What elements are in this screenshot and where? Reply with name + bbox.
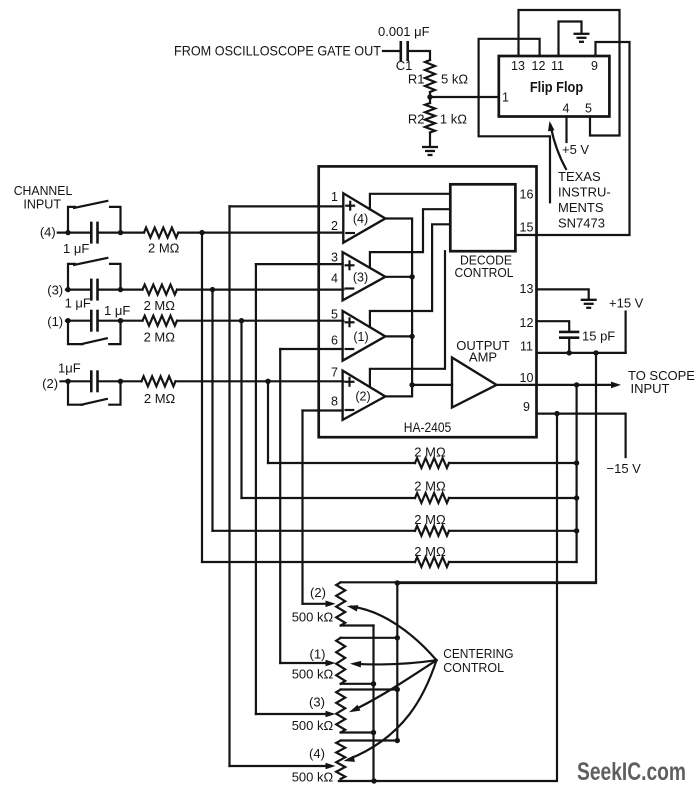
svg-text:5: 5: [585, 102, 592, 116]
svg-text:Flip Flop: Flip Flop: [530, 80, 583, 96]
svg-text:2: 2: [331, 219, 338, 233]
svg-text:2 MΩ: 2 MΩ: [414, 479, 446, 494]
svg-text:2 MΩ: 2 MΩ: [414, 544, 446, 559]
svg-text:16: 16: [520, 187, 534, 201]
svg-text:7: 7: [331, 366, 338, 380]
svg-text:5 kΩ: 5 kΩ: [441, 72, 468, 87]
svg-text:2 MΩ: 2 MΩ: [144, 391, 176, 406]
svg-text:3: 3: [331, 251, 338, 265]
svg-text:6: 6: [331, 334, 338, 348]
svg-text:10: 10: [520, 371, 534, 385]
svg-text:(4): (4): [309, 746, 325, 761]
svg-text:(2): (2): [42, 376, 58, 391]
svg-text:1: 1: [331, 190, 338, 204]
svg-text:12: 12: [532, 59, 546, 73]
svg-text:INSTRU-: INSTRU-: [558, 185, 611, 200]
svg-text:4: 4: [331, 272, 338, 286]
svg-text:R1: R1: [408, 72, 425, 87]
svg-text:(3): (3): [309, 695, 325, 710]
svg-text:1μF: 1μF: [58, 361, 81, 376]
svg-text:1 μF: 1 μF: [104, 303, 130, 318]
svg-text:13: 13: [520, 282, 534, 296]
svg-text:2 MΩ: 2 MΩ: [414, 512, 446, 527]
svg-text:500 kΩ: 500 kΩ: [292, 610, 334, 625]
svg-text:TEXAS: TEXAS: [558, 169, 601, 184]
svg-text:CONTROL: CONTROL: [455, 265, 514, 280]
svg-text:(4): (4): [40, 225, 56, 240]
svg-text:11: 11: [520, 340, 533, 354]
svg-text:AMP: AMP: [469, 349, 497, 364]
svg-text:FROM OSCILLOSCOPE GATE OUT: FROM OSCILLOSCOPE GATE OUT: [174, 43, 381, 59]
svg-text:(1): (1): [310, 647, 326, 662]
svg-text:12: 12: [520, 316, 534, 330]
svg-text:8: 8: [331, 395, 338, 409]
svg-text:2 MΩ: 2 MΩ: [144, 298, 176, 313]
svg-text:0.001 μF: 0.001 μF: [378, 24, 430, 39]
svg-text:−15 V: −15 V: [607, 461, 642, 476]
svg-text:15 pF: 15 pF: [582, 328, 615, 343]
svg-text:9: 9: [523, 400, 530, 414]
svg-text:(4): (4): [353, 212, 368, 226]
svg-text:(3): (3): [47, 283, 63, 298]
svg-text:2 MΩ: 2 MΩ: [414, 444, 446, 459]
svg-text:(1): (1): [353, 330, 368, 344]
svg-text:1 kΩ: 1 kΩ: [440, 112, 467, 127]
svg-text:R2: R2: [408, 112, 425, 127]
svg-text:(3): (3): [353, 271, 368, 285]
svg-text:4: 4: [563, 102, 570, 116]
svg-text:SN7473: SN7473: [558, 216, 605, 231]
svg-text:(2): (2): [310, 585, 326, 600]
svg-text:2 MΩ: 2 MΩ: [148, 241, 180, 256]
svg-text:1 μF: 1 μF: [63, 241, 89, 256]
svg-text:500 kΩ: 500 kΩ: [292, 666, 334, 681]
svg-text:HA-2405: HA-2405: [404, 420, 452, 435]
svg-text:11: 11: [551, 59, 564, 73]
svg-text:1: 1: [502, 91, 509, 105]
svg-text:CONTROL: CONTROL: [443, 660, 504, 675]
svg-text:MENTS: MENTS: [558, 200, 604, 215]
svg-text:(1): (1): [47, 314, 63, 329]
svg-text:INPUT: INPUT: [23, 197, 61, 212]
svg-text:SeekIC.com: SeekIC.com: [577, 758, 686, 786]
svg-text:1 μF: 1 μF: [65, 296, 91, 311]
svg-text:13: 13: [511, 59, 525, 73]
svg-text:CENTERING: CENTERING: [443, 646, 513, 661]
svg-text:9: 9: [591, 59, 598, 73]
svg-text:+5 V: +5 V: [562, 142, 589, 157]
svg-text:500 kΩ: 500 kΩ: [292, 718, 334, 733]
svg-text:INPUT: INPUT: [631, 381, 670, 396]
svg-text:+15 V: +15 V: [609, 296, 644, 311]
svg-text:(2): (2): [355, 390, 370, 404]
svg-text:500 kΩ: 500 kΩ: [292, 770, 334, 785]
svg-text:5: 5: [331, 308, 338, 322]
svg-text:15: 15: [520, 221, 534, 235]
svg-text:2 MΩ: 2 MΩ: [144, 330, 176, 345]
